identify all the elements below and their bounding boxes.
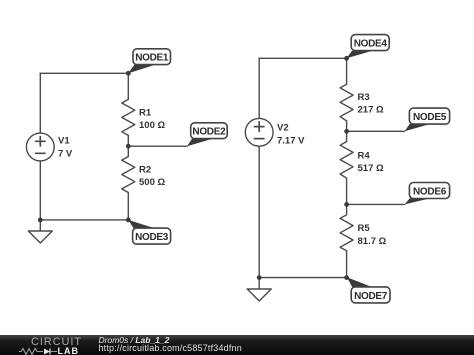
junction dot NODE7	[344, 275, 349, 280]
resistor R4	[340, 142, 353, 179]
resistor R3	[340, 84, 353, 121]
junction dot node A (circuit1 ground rail)	[38, 218, 43, 223]
svg-text:V2: V2	[277, 123, 289, 134]
node NODE3 flag	[128, 220, 170, 244]
svg-text:7.17 V: 7.17 V	[277, 136, 305, 147]
wire: circuit1 bottom rail	[40, 219, 128, 221]
label R1 value	[139, 108, 165, 132]
svg-text:81.7 Ω: 81.7 Ω	[358, 236, 387, 247]
CircuitLab logo wordmark	[31, 336, 82, 348]
wire: circuit2 left branch lower	[258, 146, 260, 277]
svg-text:R1: R1	[139, 108, 152, 119]
resistor R5	[340, 215, 353, 251]
node NODE2 flag	[187, 123, 227, 146]
logo LAB text	[58, 346, 80, 355]
wire: circuit1 left branch upper	[39, 73, 41, 133]
label R5 value	[358, 223, 387, 247]
wire: R3 bottom to node5 junction	[346, 121, 348, 131]
svg-text:R3: R3	[358, 92, 370, 103]
wire: circuit1 left branch lower	[39, 161, 41, 220]
wire: circuit2 top rail	[259, 57, 346, 59]
footer bar	[0, 335, 474, 355]
wire: R5 bottom to NODE7 junction	[346, 251, 348, 278]
node NODE4 flag	[347, 35, 390, 59]
junction dot NODE2	[126, 144, 131, 149]
wire: node6 horizontal to NODE6 flag	[347, 203, 405, 205]
svg-text:NODE2: NODE2	[192, 127, 226, 138]
svg-text:100 Ω: 100 Ω	[139, 120, 165, 131]
svg-text:NODE7: NODE7	[354, 291, 388, 302]
wire: R2 bottom to NODE3 junction	[127, 193, 129, 220]
svg-text:R5: R5	[358, 223, 371, 234]
wire: R1 bottom to node2 junction	[127, 135, 129, 146]
wire: circuit2 ground stub	[258, 278, 260, 289]
wire: NODE4 to R3 top	[346, 58, 348, 84]
wire: node2 junction to R2 top	[127, 146, 129, 156]
svg-text:R4: R4	[358, 151, 371, 162]
label V1 value	[58, 136, 73, 160]
wire: node6 junction to R5 top	[346, 204, 348, 214]
wire: node5 horizontal to NODE5 flag	[347, 130, 405, 132]
wire: node2 horizontal to NODE2 flag	[128, 145, 187, 147]
voltage source V1	[26, 133, 54, 161]
node NODE7 flag	[347, 277, 390, 303]
svg-text:NODE4: NODE4	[354, 39, 388, 50]
junction dot NODE3	[126, 218, 131, 223]
svg-text:NODE6: NODE6	[413, 186, 447, 197]
svg-text:517 Ω: 517 Ω	[358, 163, 384, 174]
label R2 value	[139, 165, 165, 189]
junction dot NODE4	[344, 56, 349, 61]
ground (circuit1)	[28, 231, 52, 243]
svg-text:R2: R2	[139, 165, 151, 176]
junction dot circuit2 ground rail	[257, 275, 262, 280]
wire: circuit1 top rail	[40, 72, 128, 74]
svg-text:NODE1: NODE1	[135, 53, 169, 64]
wire: node5 junction to R4 top	[346, 131, 348, 141]
svg-text:NODE3: NODE3	[135, 232, 169, 243]
wire: circuit2 bottom rail	[259, 277, 346, 279]
footer title	[99, 335, 170, 345]
node NODE5 flag	[405, 108, 450, 131]
footer url	[99, 343, 242, 353]
CircuitLab logo mark (resistor + diode)	[19, 347, 59, 355]
wire: R4 bottom to node6 junction	[346, 178, 348, 204]
svg-text:500 Ω: 500 Ω	[139, 177, 165, 188]
svg-text:V1: V1	[58, 136, 70, 147]
wire: circuit2 left branch upper	[258, 58, 260, 118]
svg-text:NODE5: NODE5	[413, 112, 447, 123]
junction dot node5	[344, 129, 349, 134]
resistor R1	[122, 99, 135, 135]
node NODE1 flag	[128, 49, 170, 74]
wire: circuit1 ground stub	[39, 220, 41, 231]
label R4 value	[358, 151, 384, 175]
label V2 value	[277, 123, 305, 147]
resistor R2	[122, 157, 135, 193]
wire: NODE1 to R1 top	[127, 73, 129, 99]
junction dot NODE1	[126, 71, 131, 76]
svg-text:7 V: 7 V	[58, 149, 73, 160]
label R3 value	[358, 92, 384, 116]
ground (circuit2)	[247, 289, 271, 301]
node NODE6 flag	[405, 183, 450, 205]
voltage source V2	[245, 118, 273, 146]
svg-text:217 Ω: 217 Ω	[358, 105, 384, 116]
junction dot node6	[344, 202, 349, 207]
